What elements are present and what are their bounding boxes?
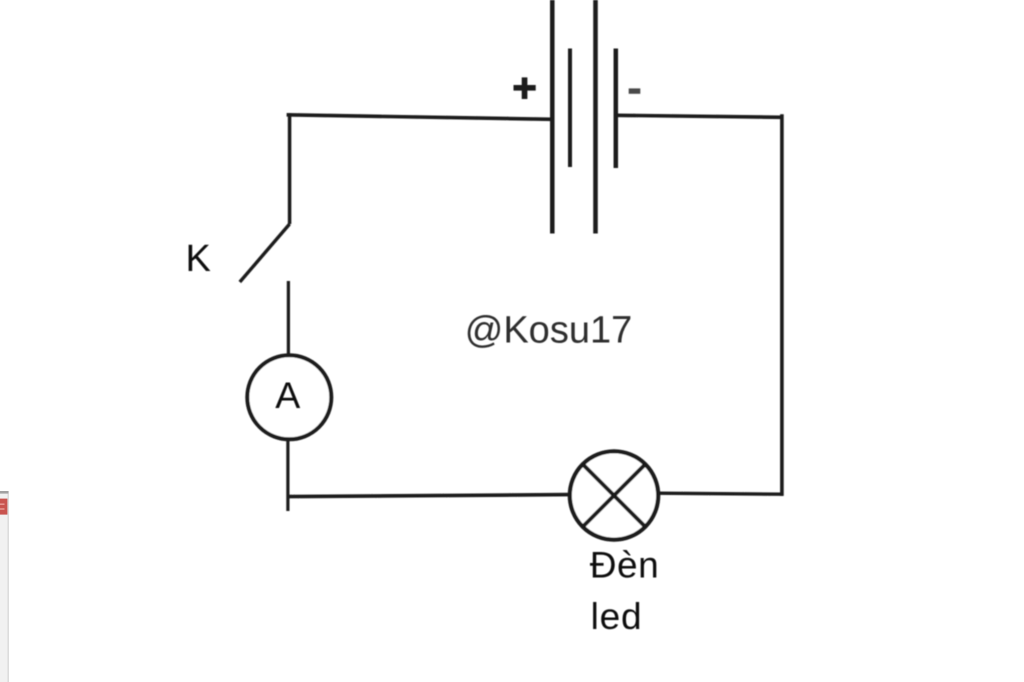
- svg-text:Đèn: Đèn: [590, 545, 659, 586]
- svg-text:@Kosu17: @Kosu17: [465, 310, 632, 352]
- svg-text:A: A: [275, 374, 300, 416]
- svg-text:K: K: [186, 238, 211, 280]
- svg-text:led: led: [591, 596, 643, 637]
